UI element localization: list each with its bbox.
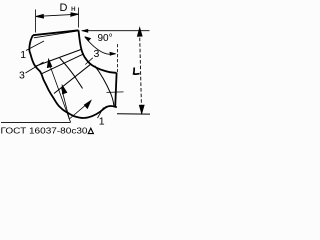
weld seam back edge xyxy=(60,58,83,89)
horizontal reference line through bend centre xyxy=(82,30,150,32)
extension line right xyxy=(78,8,80,28)
weld leader fork with three arrows xyxy=(47,59,91,122)
extension line left xyxy=(34,10,36,33)
svg-text:ГОСТ 16037-80с30: ГОСТ 16037-80с30 xyxy=(1,126,88,136)
bottom horizontal reference line xyxy=(117,113,150,115)
inlet end face (thick) xyxy=(33,30,79,35)
svg-text:н: н xyxy=(71,3,76,13)
weld seam 2 xyxy=(42,54,84,74)
weld seam 3 xyxy=(54,64,91,94)
svg-text:3: 3 xyxy=(19,70,25,82)
weld designation shelf xyxy=(1,121,71,123)
outer silhouette curve (thick) xyxy=(29,35,116,118)
inlet face chamfer thin line xyxy=(34,31,79,38)
svg-text:90°: 90° xyxy=(98,33,113,44)
90 degree arc with arrows both ends xyxy=(85,37,116,54)
inner silhouette curve (thick) xyxy=(79,30,117,73)
svg-text:D: D xyxy=(60,2,68,14)
weld seam 4 xyxy=(95,66,114,106)
vertical dashed extension of outlet face xyxy=(117,44,119,73)
left arrowhead of reference line xyxy=(81,29,88,33)
outlet axis tick line xyxy=(107,91,124,94)
outlet end face (thick) xyxy=(115,73,116,108)
svg-text:3: 3 xyxy=(94,48,100,60)
svg-text:1: 1 xyxy=(20,49,26,61)
weld seam 1 xyxy=(36,50,81,67)
svg-text:1: 1 xyxy=(99,116,105,128)
r label xyxy=(134,68,140,75)
r dimension dashed line with arrows xyxy=(138,28,145,113)
dimension Dн line with arrows xyxy=(35,8,78,33)
